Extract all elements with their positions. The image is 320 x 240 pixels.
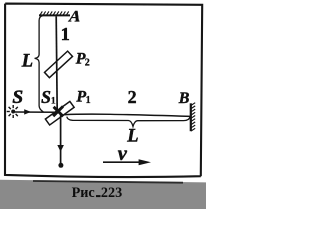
caption rule	[33, 181, 183, 183]
svg-text:S: S	[41, 87, 51, 107]
svg-text:1: 1	[61, 24, 70, 44]
mirror B	[191, 103, 195, 132]
brace L arm2	[67, 117, 190, 127]
arm 2 beam	[64, 114, 191, 116]
source beam	[15, 111, 57, 113]
svg-text:L: L	[126, 127, 138, 147]
plate P2	[45, 51, 73, 78]
observer dot	[58, 163, 63, 168]
svg-text:1: 1	[86, 95, 91, 106]
svg-text:B: B	[178, 90, 190, 107]
caption bar	[0, 180, 206, 209]
plate P1	[45, 101, 74, 125]
velocity arrow	[103, 161, 140, 163]
mirror A	[39, 11, 70, 15]
svg-text:L: L	[21, 51, 33, 71]
svg-text:S: S	[12, 87, 23, 108]
svg-text:Рис: Рис	[72, 185, 95, 201]
brace L arm1	[35, 16, 44, 113]
output beam	[60, 115, 62, 163]
svg-text:2: 2	[85, 58, 90, 69]
svg-text:223: 223	[101, 185, 122, 201]
junction X	[53, 106, 63, 116]
output beam arrowhead	[57, 145, 64, 152]
source S	[7, 105, 18, 118]
arm 1 beam	[56, 16, 57, 111]
source beam arrowhead	[24, 109, 31, 114]
svg-text:2: 2	[128, 87, 137, 107]
svg-text:1: 1	[51, 97, 56, 107]
